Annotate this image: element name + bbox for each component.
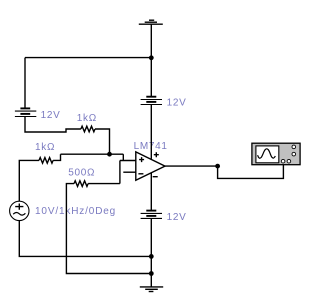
- wire 500 lead right: [88, 183, 120, 185]
- wire top battery stem: [150, 58, 152, 97]
- oscilloscope knob top 1: [292, 145, 296, 149]
- junction top dot: [149, 55, 154, 60]
- wire AC bottom: [19, 221, 151, 257]
- wire op-amp V- to bottom battery: [150, 173, 152, 210]
- op-amp minus input lead: [123, 171, 136, 173]
- junction bottom rail dot 2: [149, 271, 154, 276]
- resistor R3 500Ohm: [74, 181, 88, 187]
- battery V4 12V bottom: [141, 211, 162, 219]
- AC source plus sign: [15, 204, 23, 210]
- op-amp plus input lead: [120, 160, 136, 162]
- op-amp U1 triangle: [136, 152, 165, 180]
- wire bottom battery to ground: [150, 218, 152, 287]
- wire left 1k to node line: [53, 154, 60, 160]
- svg-text:12V: 12V: [167, 97, 187, 108]
- oscilloscope XSC1 body: [252, 143, 300, 165]
- svg-text:1kΩ: 1kΩ: [35, 142, 55, 153]
- svg-text:500Ω: 500Ω: [68, 168, 95, 179]
- junction bottom rail dot 1: [149, 254, 154, 259]
- svg-text:1kΩ: 1kΩ: [77, 113, 97, 124]
- oscilloscope screen: [256, 146, 279, 163]
- oscilloscope sine wave: [258, 149, 276, 158]
- battery V2 12V top: [141, 97, 162, 105]
- junction node A dot: [107, 152, 112, 157]
- op-amp input minus sign: [138, 173, 143, 175]
- svg-text:12V: 12V: [167, 212, 187, 223]
- wire top ground stem: [150, 24, 152, 57]
- wire 500 left down: [66, 184, 151, 274]
- wire left vertical to battery V1: [24, 58, 26, 108]
- svg-text:10V/1kHz/0Deg: 10V/1kHz/0Deg: [35, 206, 116, 217]
- wire op-amp output: [165, 165, 218, 167]
- resistor R2 1kOhm left: [39, 158, 53, 164]
- wire battery V2 to op-amp V+: [150, 105, 152, 159]
- wire node A horizontal: [61, 153, 124, 155]
- resistor R1 1kOhm top: [81, 126, 95, 132]
- AC source sine tilde: [13, 212, 25, 215]
- op-amp power minus sign: [153, 176, 158, 178]
- wire top horizontal: [25, 57, 151, 59]
- svg-text:12V: 12V: [41, 110, 61, 121]
- oscilloscope terminal 2: [287, 159, 291, 163]
- wire AC top to resistor R2: [19, 160, 39, 201]
- ground bottom: [140, 287, 163, 292]
- oscilloscope terminal 1: [281, 159, 285, 163]
- AC source V3 circle: [10, 201, 29, 220]
- wire output to scope: [218, 165, 284, 179]
- battery V1 12V left: [15, 108, 36, 116]
- op-amp input plus sign: [139, 157, 144, 162]
- wire down to plus lead: [122, 154, 124, 160]
- wire below left battery: [25, 117, 81, 133]
- op-amp power plus sign: [154, 152, 159, 157]
- junction output dot: [215, 164, 220, 169]
- wire feedback vertical: [119, 161, 121, 184]
- oscilloscope knob top 2: [292, 152, 296, 156]
- ground top: [139, 20, 163, 24]
- wire resistor R1 to node A: [95, 129, 110, 154]
